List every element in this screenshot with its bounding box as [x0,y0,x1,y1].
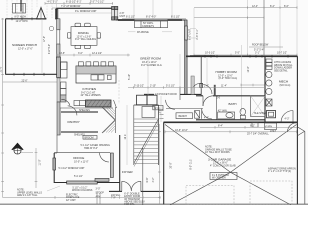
svg-text:BROOM: BROOM [85,136,94,139]
mech west wall [264,56,266,122]
svg-text:3'-6": 3'-6" [159,108,162,113]
great room right dims [190,28,196,30]
svg-text:10'-0" x 11'-0": 10'-0" x 11'-0" [74,161,89,164]
pantry shelves bottom [61,130,98,132]
garage dim line [165,131,297,133]
window tag circle [49,26,54,31]
top right ext lines [247,0,249,55]
svg-text:42" TALL UPPERS: 42" TALL UPPERS [81,94,101,97]
svg-text:TILE SHWR: TILE SHWR [254,112,267,115]
svg-text:FP ABOVE: FP ABOVE [137,31,149,34]
stairwell [133,105,135,165]
hobby right dim [241,45,243,112]
svg-text:FOYER: FOYER [122,170,133,174]
svg-text:CABINETS: CABINETS [142,25,154,28]
svg-text:42" VAN: 42" VAN [218,110,227,113]
svg-text:11'-4": 11'-4" [221,85,227,88]
svg-text:12'-0" OPN: 12'-0" OPN [16,20,28,23]
great room top wall [116,19,187,21]
bath/hobby wall [196,95,203,97]
svg-text:10'-6" 10'-6": 10'-6" 10'-6" [175,129,188,132]
stoop tick marks [97,193,100,205]
bath lower door arc [202,109,212,119]
furnace box [265,123,277,130]
porch chimney triangle [37,8,46,20]
svg-text:8'-6": 8'-6" [284,5,289,8]
svg-text:AT&T: AT&T [270,130,276,133]
svg-text:WOOD COLUMNS: WOOD COLUMNS [72,189,93,192]
svg-text:22'-0": 22'-0" [22,79,28,82]
svg-text:5'-10": 5'-10" [128,74,131,80]
svg-text:42" UNIT: 42" UNIT [66,199,76,202]
right mid dim line [200,126,297,128]
kitchen south counter [86,100,112,107]
svg-text:17'-0": 17'-0" [43,36,46,42]
laundry tub [267,111,276,118]
mech shelves [266,59,272,62]
porch left wall [5,19,7,75]
svg-text:HDR AT 8'-0": HDR AT 8'-0" [84,147,98,150]
svg-text:SCREEN PORCH: SCREEN PORCH [12,43,37,47]
chimney wedge [298,127,305,136]
svg-text:SEE DETAIL: SEE DETAIL [274,69,288,72]
svg-text:BENCH: BENCH [179,115,188,118]
svg-text:16 R: 16 R [124,134,127,139]
pantry top wall [59,108,61,135]
chairs bottom [75,45,81,48]
svg-text:25'-7 3/4" OVERALL: 25'-7 3/4" OVERALL [247,133,269,136]
garage left dim line [158,124,160,204]
north arrow [12,143,23,150]
pantry shelves top [61,110,98,112]
svg-text:3'-6" 5'-0": 3'-6" 5'-0" [48,44,51,54]
island [76,66,116,83]
foyer west wall [110,153,113,178]
front double doors [122,181,132,191]
bench [176,113,193,119]
svg-text:20'-0": 20'-0" [170,162,173,168]
hall wall [144,93,154,95]
garage top wall [164,121,298,123]
stair break line [134,119,159,163]
kitchen sw door arc [61,99,70,105]
svg-text:9'-0" TALL CEILING: 9'-0" TALL CEILING [75,38,96,41]
svg-text:3'-1": 3'-1" [255,52,260,55]
hobby west wall [200,56,202,96]
svg-text:5'-5": 5'-5" [235,52,240,55]
wic label [153,106,163,110]
hall dim line [187,87,265,89]
dining right window bay [112,7,118,21]
svg-text:8'-0" CLG: 8'-0" CLG [190,159,193,169]
svg-text:ARE 9'-1 1/8" TALL: ARE 9'-1 1/8" TALL [17,194,38,197]
svg-text:3'-0": 3'-0" [96,188,101,191]
svg-text:FURN: FURN [266,126,273,129]
house west wall upper (porch east) [57,19,60,30]
svg-text:6'-2": 6'-2" [250,125,255,128]
garage X braces [165,125,231,173]
west wall pantry [57,102,60,135]
corner shelving [102,107,115,133]
svg-text:13'-0": 13'-0" [247,66,250,72]
west counter [61,62,68,78]
svg-text:UNIT: UNIT [120,15,126,18]
office west wall [53,153,55,183]
svg-text:W/ OPENER: W/ OPENER [212,177,226,180]
svg-text:2'-6": 2'-6" [204,85,209,88]
svg-text:5'-10 1/2": 5'-10 1/2" [134,85,144,88]
svg-text:12'-2 1/2": 12'-2 1/2" [92,52,102,55]
mud wall [166,108,203,110]
svg-text:5'-4 1/2" WINDOW UNIT: 5'-4 1/2" WINDOW UNIT [59,167,86,170]
svg-text:12'-4": 12'-4" [252,5,258,8]
svg-text:6'-0" UNIT: 6'-0" UNIT [189,28,192,40]
stools [79,62,84,66]
foyer south wall [109,190,122,192]
svg-text:6'-2 1/2": 6'-2 1/2" [126,15,135,18]
svg-text:14'-6": 14'-6" [59,52,65,55]
svg-text:HOBBY ROOM: HOBBY ROOM [216,70,238,74]
svg-text:5'-2 1/2": 5'-2 1/2" [166,85,175,88]
svg-text:4'-1" 5'-2": 4'-1" 5'-2" [48,0,58,3]
svg-text:4'-3": 4'-3" [204,117,209,120]
svg-text:PANTRY: PANTRY [68,120,80,124]
vanity [218,112,235,119]
svg-text:4" x 4" x 3'-0" TYP (4): 4" x 4" x 3'-0" TYP (4) [268,170,291,173]
outdoor grill [13,4,26,14]
svg-text:10'-0 1/2": 10'-0 1/2" [205,52,215,55]
office door arc [100,153,110,162]
page border bottom [0,203,308,205]
water heater circles [266,71,272,77]
bottom dim line [3,196,160,198]
svg-text:6'-2 1/2": 6'-2 1/2" [171,15,180,18]
kitchen/great divider [118,80,120,104]
hobby top wall [186,55,298,57]
range boxes [61,82,67,89]
mech door arc right [281,110,293,122]
stoop wall [95,178,109,181]
svg-text:2'-3" 4'-1": 2'-3" 4'-1" [196,29,199,39]
hall door arc [194,84,202,87]
water heater box [252,123,258,128]
wall y55 great/hobby [190,55,215,57]
svg-text:4'-3": 4'-3" [285,118,290,121]
center hall dims vertical [147,56,149,95]
shower [251,96,266,117]
svg-text:TYP: TYP [111,197,116,200]
left mid dim line [35,148,37,188]
top dim line [45,2,113,4]
svg-text:2-8 POCKET DOOR: 2-8 POCKET DOOR [155,93,177,96]
porch inner dim line [41,19,43,74]
svg-text:OFFICE: OFFICE [73,156,84,160]
powder room [137,95,148,105]
svg-text:5'-0 1/2": 5'-0 1/2" [74,175,83,178]
svg-text:P.A. WINDOW UNIT: P.A. WINDOW UNIT [75,10,97,13]
dining table [71,27,97,46]
office top wall [54,152,110,154]
understair shelves [160,111,164,119]
svg-text:4'-2": 4'-2" [152,177,155,182]
chairs sides [67,33,70,39]
chairs top [75,23,81,26]
pantry door arc [68,106,77,116]
right outer line [304,132,306,205]
svg-text:22'-0": 22'-0" [0,66,3,72]
dim line below dining [57,54,130,56]
stair left dims [126,105,128,165]
softener box [266,99,272,106]
office south wall + window [54,182,119,184]
hall ext line [179,54,181,88]
house east wall [296,56,298,204]
svg-text:10' TALL W/ 8' DOORS: 10' TALL W/ 8' DOORS [205,151,230,154]
svg-text:BATH: BATH [229,102,237,106]
svg-text:4" CONC FLOOR SLAB: 4" CONC FLOOR SLAB [210,165,236,168]
west wall office jog [56,135,58,153]
svg-text:ROOF BELOW: ROOF BELOW [252,44,269,47]
svg-text:3'-0": 3'-0" [78,52,83,55]
toilet [240,115,245,119]
svg-text:GREAT ROOM: GREAT ROOM [140,56,161,60]
svg-text:2'-10": 2'-10" [150,85,156,88]
top mid ext lines [133,0,135,19]
kitchen south wall [60,107,113,109]
svg-text:10'-7 1/2": 10'-7 1/2" [277,52,287,55]
garage door dashed areas [186,186,234,205]
hall wall piece [214,85,216,96]
svg-text:11'-0": 11'-0" [39,159,42,165]
hobby dim ext [206,58,208,87]
corridor dim marks [160,96,162,122]
mud door arc [166,100,175,109]
garage door label box [210,173,237,180]
porch bottom wall [6,73,58,75]
svg-text:6'-8": 6'-8" [146,177,149,182]
hall chase wall [191,76,194,94]
svg-text:8'-2": 8'-2" [270,5,275,8]
foyer east wall [119,135,121,192]
garage west wall [163,122,165,204]
dining top wall [57,7,113,9]
svg-text:8'-3" 4'-0": 8'-3" 4'-0" [146,15,156,18]
porch bottom dim [3,81,57,83]
kitchen west wall gray [57,57,61,78]
svg-text:5'-3" 7'-2 1/2": 5'-3" 7'-2 1/2" [90,0,104,3]
svg-text:(NO CLG): (NO CLG) [280,84,291,87]
broom box [83,136,97,140]
fireplace cabinet [135,21,168,28]
dining west wall upper [55,9,58,19]
bath door arc [203,96,213,106]
porch roof lines [7,0,52,18]
svg-text:9'-0" SLOPED CLG: 9'-0" SLOPED CLG [141,64,162,67]
cubbies [195,111,200,119]
bath bottom wall [196,119,265,121]
svg-text:6'-10 1/2" 6'-1": 6'-10 1/2" 6'-1" [66,0,82,3]
great room east wall [185,20,188,94]
dining left wall upper [56,8,58,19]
svg-text:(9'-0" TRAY CLG): (9'-0" TRAY CLG) [219,77,238,80]
svg-text:FOR DTL: FOR DTL [124,203,135,205]
porch top wall [6,18,47,20]
left dimension line [2,18,4,198]
svg-text:8'-4": 8'-4" [218,125,223,128]
svg-text:SHELVES: SHELVES [79,109,90,112]
foyer right wall [142,148,144,205]
bath partition [216,96,218,120]
svg-text:12'-0" x 17'-0": 12'-0" x 17'-0" [18,47,33,50]
svg-text:8'-0" HIGH: 8'-0" HIGH [15,16,27,19]
